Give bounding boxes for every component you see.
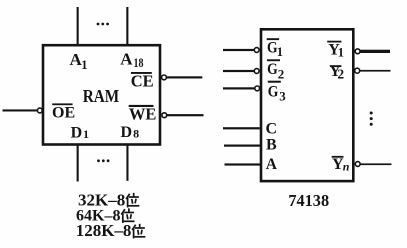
pin label OE (active low) — [52, 103, 75, 121]
svg-text:D: D — [71, 125, 83, 142]
svg-text:1: 1 — [81, 58, 87, 72]
wire Y2 output — [360, 70, 391, 72]
svg-text:A: A — [266, 156, 278, 173]
capacity label 32K-8bit — [78, 190, 139, 209]
svg-text:RAM: RAM — [83, 86, 120, 106]
wire A input — [225, 163, 261, 165]
WE bubble — [162, 113, 167, 118]
svg-text:1: 1 — [83, 127, 89, 141]
pin label D1 — [71, 125, 89, 142]
svg-text:G: G — [267, 61, 278, 78]
pin label A18 — [120, 49, 143, 70]
ellipsis between address wires — [97, 23, 109, 26]
pin label CE (active low) — [131, 71, 154, 90]
svg-text:2: 2 — [337, 67, 344, 82]
pin label Y2 (active low) — [329, 63, 344, 82]
svg-text:128K–8: 128K–8 — [76, 221, 132, 240]
pin label A1 — [70, 50, 88, 72]
svg-text:A: A — [120, 49, 133, 68]
wire G1 input — [223, 49, 254, 51]
vertical ellipsis between outputs — [370, 112, 373, 126]
svg-text:OE: OE — [52, 105, 75, 122]
wire address A18 (top) — [126, 7, 128, 45]
wire G2 input — [223, 70, 254, 72]
wire WE — [167, 114, 204, 116]
decoder 74138 U2 box — [261, 29, 353, 181]
svg-text:8: 8 — [133, 127, 139, 141]
pin label Yn (active low) — [332, 156, 350, 173]
wire C input — [223, 127, 260, 129]
wire OE — [3, 109, 38, 111]
wire data D1 (bottom) — [77, 145, 79, 182]
svg-text:3: 3 — [279, 89, 286, 104]
Y1 bubble — [355, 49, 360, 54]
Yn bubble — [355, 162, 360, 167]
G2 bubble — [254, 69, 259, 74]
svg-text:18: 18 — [134, 56, 144, 70]
pin label G1 (active low) — [267, 38, 283, 59]
svg-text:B: B — [266, 137, 277, 154]
svg-text:C: C — [266, 120, 278, 137]
CE bubble — [162, 75, 167, 80]
G1 bubble — [254, 48, 259, 53]
svg-text:2: 2 — [278, 66, 285, 81]
G3 bubble — [255, 86, 260, 91]
wire data D8 (bottom) — [126, 145, 128, 181]
svg-text:1: 1 — [277, 45, 283, 59]
OE bubble — [37, 108, 42, 113]
svg-text:CE: CE — [131, 71, 154, 90]
wire CE — [167, 76, 203, 78]
pin label G3 (active low) — [268, 81, 287, 104]
RAM chip U1 box — [43, 45, 160, 144]
pin label G2 (active low) — [267, 59, 284, 81]
wire address A1 (top) — [77, 7, 79, 45]
Y2 bubble — [355, 68, 360, 73]
pin label Y1 (active low) — [327, 41, 344, 60]
pin label WE (active low) — [129, 105, 157, 124]
svg-text:D: D — [121, 124, 133, 141]
wire B input — [224, 145, 261, 147]
svg-text:n: n — [343, 159, 350, 173]
svg-text:WE: WE — [129, 105, 157, 124]
svg-text:1: 1 — [338, 46, 344, 60]
capacity label 128K-8bit — [76, 221, 145, 240]
capacity label 64K-8bit — [76, 207, 134, 224]
wire Yn output — [360, 163, 391, 165]
wire G3 input — [223, 87, 255, 89]
wire Y1 output — [360, 50, 390, 53]
svg-text:G: G — [268, 84, 279, 101]
svg-text:74138: 74138 — [288, 191, 329, 210]
pin label D8 — [121, 124, 140, 141]
ellipsis between data wires — [97, 159, 109, 162]
